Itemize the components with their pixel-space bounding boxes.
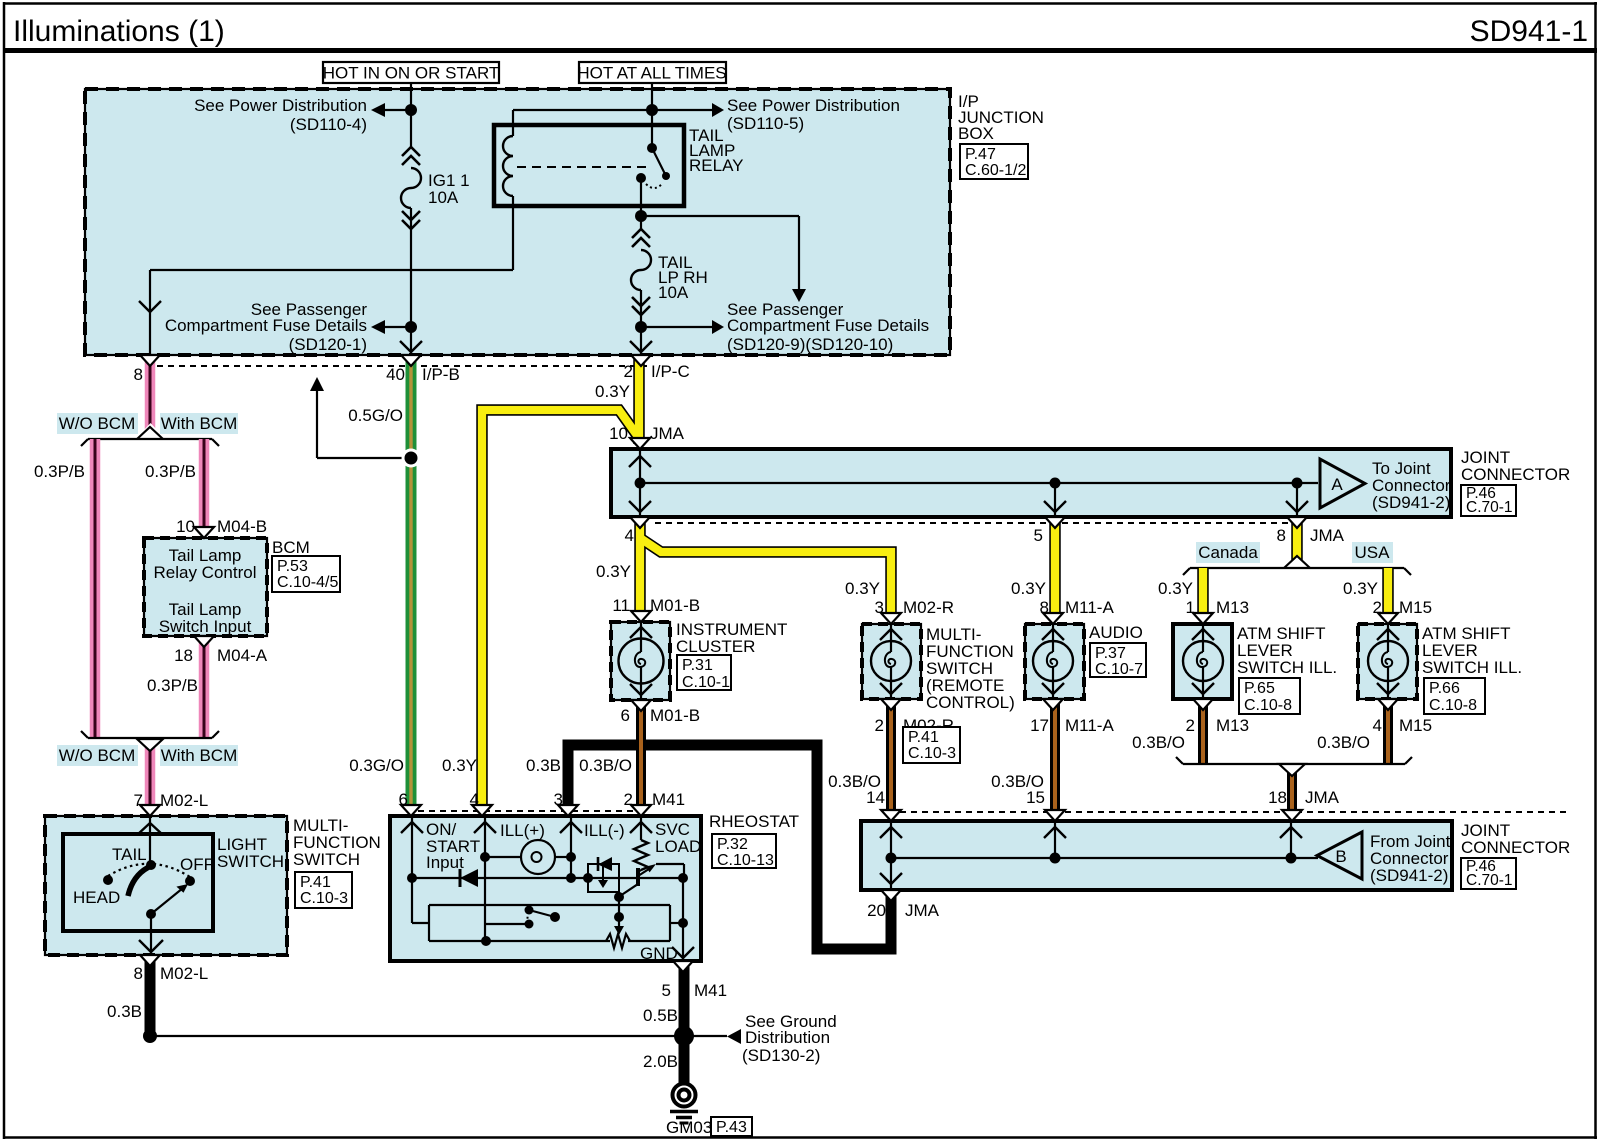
svg-text:C.10-13: C.10-13 — [717, 852, 774, 869]
svg-text:10: 10 — [609, 424, 628, 443]
svg-text:Distribution: Distribution — [745, 1028, 830, 1047]
svg-text:M11-A: M11-A — [1065, 716, 1114, 735]
svg-text:M41: M41 — [694, 981, 727, 1000]
svg-text:Canada: Canada — [1198, 543, 1258, 562]
svg-text:0.3B/O: 0.3B/O — [1317, 733, 1370, 752]
svg-text:RHEOSTAT: RHEOSTAT — [709, 812, 799, 831]
svg-text:(SD110-4): (SD110-4) — [290, 115, 367, 134]
svg-text:CONNECTOR: CONNECTOR — [1461, 465, 1570, 484]
svg-text:8: 8 — [1040, 598, 1049, 617]
svg-text:(SD130-2): (SD130-2) — [742, 1046, 820, 1065]
svg-text:M04-A: M04-A — [217, 646, 268, 665]
svg-text:C.10-3: C.10-3 — [300, 890, 348, 907]
svg-text:P.31: P.31 — [682, 657, 713, 674]
svg-text:P.47: P.47 — [965, 146, 996, 163]
svg-text:10A: 10A — [658, 283, 689, 302]
svg-text:P.53: P.53 — [277, 558, 308, 575]
svg-text:SWITCH ILL.: SWITCH ILL. — [1237, 658, 1337, 677]
svg-text:P.66: P.66 — [1429, 680, 1460, 697]
svg-text:M04-B: M04-B — [217, 517, 267, 536]
svg-text:C.70-1: C.70-1 — [1466, 872, 1513, 889]
svg-text:2.0B: 2.0B — [643, 1052, 678, 1071]
svg-text:11: 11 — [612, 596, 630, 615]
svg-text:See Power Distribution: See Power Distribution — [194, 96, 367, 115]
svg-text:Compartment Fuse Details: Compartment Fuse Details — [165, 316, 367, 335]
svg-text:LOAD: LOAD — [655, 837, 701, 856]
svg-text:0.3B: 0.3B — [526, 756, 561, 775]
svg-text:HOT IN ON OR START: HOT IN ON OR START — [323, 64, 500, 83]
svg-text:15: 15 — [1026, 788, 1045, 807]
svg-text:14: 14 — [866, 788, 885, 807]
svg-text:0.3B/O: 0.3B/O — [1132, 733, 1185, 752]
svg-text:0.3B: 0.3B — [107, 1002, 142, 1021]
svg-text:M01-B: M01-B — [650, 596, 700, 615]
svg-text:0.3Y: 0.3Y — [1158, 579, 1193, 598]
svg-text:W/O BCM: W/O BCM — [59, 414, 136, 433]
svg-text:0.3Y: 0.3Y — [845, 579, 880, 598]
svg-text:2: 2 — [1186, 716, 1195, 735]
svg-text:CONNECTOR: CONNECTOR — [1461, 838, 1570, 857]
svg-text:ILL(-): ILL(-) — [584, 821, 625, 840]
svg-text:0.3G/O: 0.3G/O — [349, 756, 404, 775]
svg-text:GND: GND — [640, 944, 678, 963]
svg-text:(SD110-5): (SD110-5) — [727, 114, 804, 133]
svg-text:W/O BCM: W/O BCM — [59, 746, 136, 765]
svg-text:5: 5 — [1034, 526, 1043, 545]
svg-text:BOX: BOX — [958, 124, 994, 143]
svg-text:10A: 10A — [428, 188, 459, 207]
svg-text:8: 8 — [1277, 526, 1286, 545]
svg-text:0.3B/O: 0.3B/O — [579, 756, 632, 775]
svg-text:SWITCH ILL.: SWITCH ILL. — [1422, 658, 1522, 677]
svg-text:C.10-3: C.10-3 — [908, 745, 956, 762]
svg-text:CLUSTER: CLUSTER — [676, 637, 755, 656]
svg-text:P.41: P.41 — [300, 874, 331, 891]
svg-text:M02-L: M02-L — [160, 964, 208, 983]
svg-text:(SD120-9)(SD120-10): (SD120-9)(SD120-10) — [727, 335, 893, 354]
svg-text:0.5G/O: 0.5G/O — [348, 406, 403, 425]
svg-text:4: 4 — [625, 526, 634, 545]
svg-text:JMA: JMA — [1305, 788, 1340, 807]
svg-text:C.10-7: C.10-7 — [1095, 661, 1143, 678]
svg-text:P.43: P.43 — [716, 1119, 747, 1136]
svg-text:Switch Input: Switch Input — [159, 617, 252, 636]
svg-text:5: 5 — [662, 981, 671, 1000]
svg-text:6: 6 — [621, 706, 630, 725]
svg-text:C.70-1: C.70-1 — [1466, 499, 1513, 516]
svg-text:C.10-4/5: C.10-4/5 — [277, 574, 338, 591]
svg-text:Input: Input — [426, 853, 464, 872]
svg-text:C.10-1: C.10-1 — [682, 674, 730, 691]
svg-text:M11-A: M11-A — [1065, 598, 1114, 617]
svg-text:M01-B: M01-B — [650, 706, 700, 725]
svg-text:USA: USA — [1355, 543, 1391, 562]
svg-text:0.3P/B: 0.3P/B — [145, 462, 196, 481]
svg-text:P.65: P.65 — [1244, 680, 1275, 697]
svg-text:RELAY: RELAY — [689, 156, 744, 175]
svg-text:0.3Y: 0.3Y — [442, 756, 477, 775]
svg-text:(SD941-2): (SD941-2) — [1370, 866, 1448, 885]
svg-text:4: 4 — [470, 790, 479, 809]
svg-text:8: 8 — [134, 365, 143, 384]
svg-text:7: 7 — [134, 791, 143, 810]
svg-text:(SD120-1): (SD120-1) — [289, 335, 367, 354]
svg-text:Relay Control: Relay Control — [154, 563, 257, 582]
svg-text:2: 2 — [624, 362, 633, 381]
svg-text:40: 40 — [386, 365, 405, 384]
svg-text:SWITCH: SWITCH — [217, 852, 284, 871]
svg-text:HEAD: HEAD — [73, 888, 120, 907]
svg-text:See Power Distribution: See Power Distribution — [727, 96, 900, 115]
svg-text:JMA: JMA — [650, 424, 685, 443]
svg-text:P.41: P.41 — [908, 729, 939, 746]
svg-text:0.3Y: 0.3Y — [1343, 579, 1378, 598]
svg-text:With BCM: With BCM — [161, 414, 238, 433]
svg-text:M02-R: M02-R — [903, 598, 954, 617]
svg-text:M02-L: M02-L — [160, 791, 208, 810]
svg-text:A: A — [1331, 475, 1343, 494]
svg-text:SD941-1: SD941-1 — [1470, 15, 1588, 48]
svg-text:TAIL: TAIL — [112, 845, 147, 864]
svg-text:CONTROL): CONTROL) — [926, 693, 1015, 712]
svg-text:0.3P/B: 0.3P/B — [147, 676, 198, 695]
svg-text:0.3P/B: 0.3P/B — [34, 462, 85, 481]
svg-text:2: 2 — [624, 790, 633, 809]
svg-text:M13: M13 — [1216, 716, 1249, 735]
svg-text:3: 3 — [875, 598, 884, 617]
svg-text:M15: M15 — [1399, 598, 1432, 617]
svg-text:10: 10 — [176, 517, 195, 536]
svg-text:20: 20 — [867, 901, 886, 920]
svg-text:GM03: GM03 — [666, 1118, 712, 1137]
svg-text:18: 18 — [1268, 788, 1287, 807]
svg-text:OFF: OFF — [180, 855, 214, 874]
svg-text:ILL(+): ILL(+) — [500, 821, 545, 840]
svg-text:3: 3 — [554, 790, 563, 809]
svg-text:0.5B: 0.5B — [643, 1006, 678, 1025]
svg-text:JMA: JMA — [905, 901, 940, 920]
svg-text:1: 1 — [1186, 598, 1195, 617]
svg-text:BCM: BCM — [272, 538, 310, 557]
svg-text:P.37: P.37 — [1095, 645, 1126, 662]
svg-text:18: 18 — [174, 646, 193, 665]
svg-text:SWITCH: SWITCH — [293, 850, 360, 869]
svg-text:M41: M41 — [652, 790, 685, 809]
svg-text:M15: M15 — [1399, 716, 1432, 735]
svg-text:C.10-8: C.10-8 — [1244, 697, 1292, 714]
svg-text:B: B — [1335, 847, 1346, 866]
svg-text:Compartment Fuse Details: Compartment Fuse Details — [727, 316, 929, 335]
svg-text:Illuminations (1): Illuminations (1) — [13, 15, 225, 48]
svg-text:With BCM: With BCM — [161, 746, 238, 765]
svg-text:HOT AT ALL TIMES: HOT AT ALL TIMES — [577, 64, 726, 83]
svg-text:0.3Y: 0.3Y — [595, 382, 630, 401]
svg-text:4: 4 — [1373, 716, 1382, 735]
svg-text:6: 6 — [399, 790, 408, 809]
svg-text:(SD941-2): (SD941-2) — [1372, 493, 1450, 512]
svg-text:JMA: JMA — [1310, 526, 1345, 545]
svg-text:8: 8 — [134, 964, 143, 983]
svg-text:M13: M13 — [1216, 598, 1249, 617]
svg-text:17: 17 — [1030, 716, 1049, 735]
svg-text:I/P-C: I/P-C — [651, 362, 690, 381]
svg-text:I/P-B: I/P-B — [422, 365, 460, 384]
svg-text:0.3Y: 0.3Y — [596, 562, 631, 581]
svg-text:C.60-1/2: C.60-1/2 — [965, 162, 1026, 179]
svg-text:AUDIO: AUDIO — [1089, 623, 1143, 642]
svg-text:2: 2 — [875, 716, 884, 735]
svg-text:P.32: P.32 — [717, 836, 748, 853]
svg-text:2: 2 — [1373, 598, 1382, 617]
svg-text:0.3Y: 0.3Y — [1011, 579, 1046, 598]
svg-text:C.10-8: C.10-8 — [1429, 697, 1477, 714]
